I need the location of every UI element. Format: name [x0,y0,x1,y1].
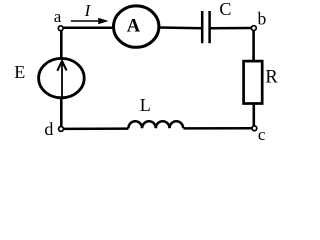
svg-text:A: A [127,17,141,37]
inductor L arcs [128,121,183,128]
current arrow I line [71,20,100,22]
wire inductor to node d [62,127,129,130]
wire capacitor to node b [210,27,252,30]
svg-text:R: R [265,67,278,87]
resistor R box [244,61,263,103]
voltage source arrow shaft [61,64,63,97]
wire node c to inductor [184,127,254,130]
current arrowhead [98,18,108,24]
capacitor C left plate [201,11,204,43]
capacitor C right plate [208,11,211,43]
wire ammeter to capacitor [159,26,202,29]
node d [59,126,64,131]
wire source to node a [60,30,63,59]
node a [58,26,63,31]
voltage source arrowhead [57,61,66,71]
svg-text:b: b [258,9,267,29]
svg-text:L: L [140,95,151,115]
svg-text:I: I [84,1,92,20]
wire node b to resistor [252,30,255,62]
svg-text:a: a [54,7,62,26]
wire resistor to node c [253,104,256,128]
svg-text:c: c [258,125,266,144]
ammeter U1 circle [114,6,159,47]
node b [251,26,256,31]
svg-text:d: d [44,119,53,139]
svg-text:E: E [14,62,25,82]
node c [252,126,257,131]
wire node d to source [60,98,63,128]
wire a to ammeter [62,26,114,29]
voltage source E circle [39,58,85,97]
svg-text:C: C [219,0,231,19]
